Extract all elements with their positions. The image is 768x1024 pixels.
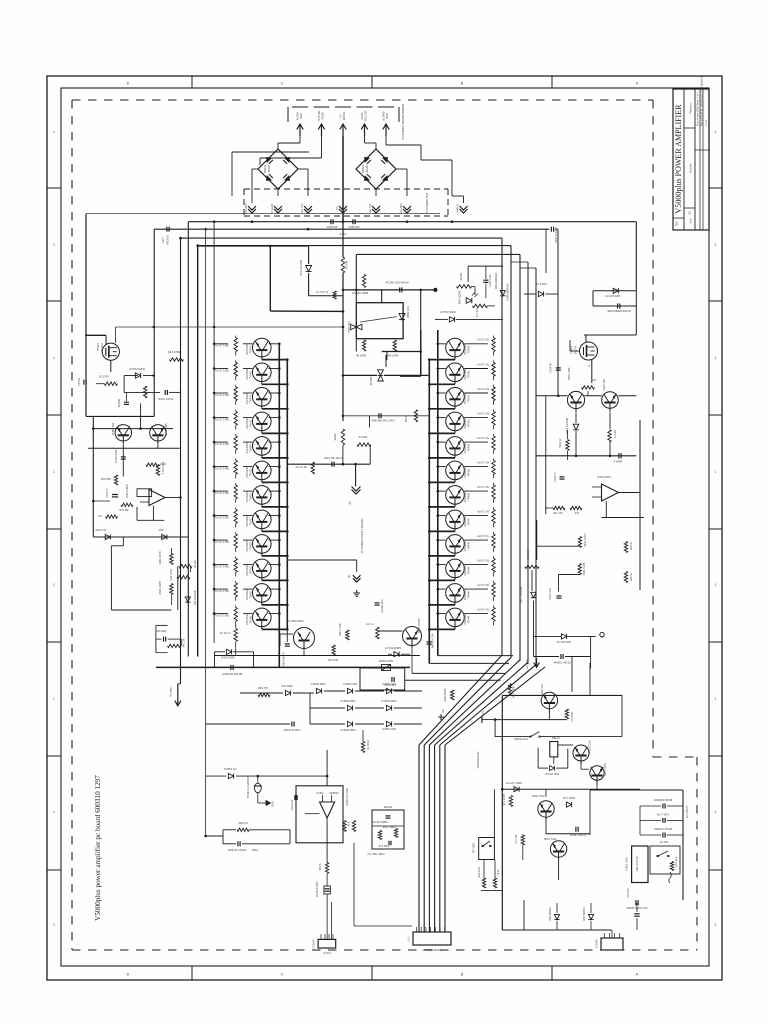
svg-text:RED: RED — [385, 113, 389, 119]
svg-text:4K 9B: 4K 9B — [459, 273, 463, 280]
svg-text:AWE 4L2 W1P2: AWE 4L2 W1P2 — [228, 848, 247, 852]
svg-text:MR1 TIP: MR1 TIP — [258, 686, 268, 690]
svg-text:AU2 0.5W: AU2 0.5W — [169, 569, 173, 581]
svg-text:AN1 DIR2: AN1 DIR2 — [281, 684, 293, 688]
svg-text:HY1N2 W9P2: HY1N2 W9P2 — [385, 646, 402, 650]
svg-text:C422 47D: C422 47D — [548, 588, 552, 600]
svg-text:TO POWER SUPPLY BOARD: TO POWER SUPPLY BOARD — [360, 519, 364, 554]
svg-text:W140 DIRE: W140 DIRE — [221, 656, 235, 660]
svg-text:D65 B/W94: D65 B/W94 — [548, 907, 552, 921]
svg-text:R 1.12V: R 1.12V — [475, 308, 479, 318]
svg-text:2SC5200: 2SC5200 — [245, 344, 249, 355]
svg-text:TR412: TR412 — [249, 394, 253, 402]
svg-text:TR430: TR430 — [467, 345, 471, 353]
svg-text:4C1 L1P8: 4C1 L1P8 — [502, 794, 506, 806]
svg-text:C417: C417 — [161, 236, 165, 243]
svg-text:IC40 LM311: IC40 LM311 — [597, 475, 611, 479]
svg-text:AU 07 0.5W: AU 07 0.5W — [215, 442, 230, 446]
svg-text:BC4L3 2.2U/16KV: BC4L3 2.2U/16KV — [246, 776, 250, 797]
svg-text:D: D — [127, 973, 130, 977]
svg-text:1: 1 — [53, 923, 55, 927]
svg-text:2SC5200: 2SC5200 — [245, 442, 249, 453]
svg-text:Title: Title — [675, 221, 679, 226]
svg-text:1: 1 — [715, 130, 717, 134]
svg-text:BK UPB: BK UPB — [328, 658, 338, 662]
svg-text:AU 07 1W: AU 07 1W — [477, 509, 489, 513]
svg-text:AU 07 1W: AU 07 1W — [477, 558, 489, 562]
svg-text:7M117 PJ8: 7M117 PJ8 — [338, 623, 342, 636]
svg-text:W26LN 9PN: W26LN 9PN — [379, 659, 394, 663]
svg-text:TR414: TR414 — [570, 346, 574, 354]
svg-text:IC40 LM311: IC40 LM311 — [125, 483, 129, 497]
svg-text:9C9 45L: 9C9 45L — [119, 508, 129, 512]
svg-text:HYPN1 0IN1: HYPN1 0IN1 — [545, 772, 560, 776]
svg-text:HYBN2 DIR2: HYBN2 DIR2 — [340, 699, 356, 703]
svg-text:R47: R47 — [592, 378, 597, 382]
svg-text:A2: A2 — [688, 211, 692, 215]
svg-text:D411 1N4148: D411 1N4148 — [299, 260, 303, 276]
svg-text:4U TCC H: 4U TCC H — [316, 290, 328, 294]
svg-text:49AC 9W 49C.2: 49AC 9W 49C.2 — [324, 456, 343, 460]
svg-text:AC-70V: AC-70V — [368, 203, 372, 212]
svg-text:L.PL: L.PL — [407, 936, 411, 942]
svg-text:AU(M) 49.2: AU(M) 49.2 — [380, 599, 384, 613]
svg-text:AMP+G: AMP+G — [456, 203, 460, 212]
svg-text:C48 100/100: C48 100/100 — [282, 652, 286, 667]
svg-text:T8.44 3986: T8.44 3986 — [164, 423, 168, 437]
svg-text:R 2.2K: R 2.2K — [613, 430, 617, 438]
svg-text:TR434: TR434 — [467, 443, 471, 451]
svg-text:AC0R: AC0R — [360, 112, 364, 119]
svg-text:V5000plus POWER AMPLIFIER: V5000plus POWER AMPLIFIER — [674, 104, 683, 214]
svg-text:TR60 7912: TR60 7912 — [532, 794, 545, 798]
svg-text:TR42 2SC58: TR42 2SC58 — [417, 618, 421, 634]
svg-text:2SA1943: 2SA1943 — [463, 467, 467, 478]
svg-text:E9C4E: E9C4E — [384, 805, 392, 809]
svg-text:7s1 0W1 49P.2: 7s1 0W1 49P.2 — [367, 852, 385, 856]
svg-text:TR418: TR418 — [249, 541, 253, 549]
svg-text:Revision: Revision — [689, 102, 693, 113]
svg-text:1: 1 — [715, 697, 717, 701]
svg-text:35A05: 35A05 — [267, 165, 271, 173]
svg-text:+POWER W101A: +POWER W101A — [422, 948, 443, 952]
svg-text:D60 MUR320: D60 MUR320 — [494, 273, 498, 289]
svg-text:XS GPB: XS GPB — [570, 712, 574, 722]
svg-text:1: 1 — [53, 810, 55, 814]
svg-text:SPEAKER 2W: SPEAKER 2W — [476, 751, 480, 768]
svg-text:C422 47: C422 47 — [553, 472, 557, 482]
svg-text:36.1 DIPB: 36.1 DIPB — [512, 686, 516, 698]
svg-text:D415 N240: D415 N240 — [114, 449, 118, 463]
svg-text:TR419: TR419 — [249, 566, 253, 574]
svg-text:IC402: IC402 — [317, 791, 324, 795]
svg-text:C4.1W: C4.1W — [77, 377, 81, 385]
svg-text:AN61 10PB: AN61 10PB — [158, 581, 162, 595]
svg-text:D416 1N4148: D416 1N4148 — [565, 417, 569, 434]
svg-text:2SA1943: 2SA1943 — [463, 565, 467, 576]
svg-text:SP-: SP- — [347, 574, 351, 578]
svg-text:2SA1943: 2SA1943 — [463, 516, 467, 527]
svg-text:3K61 DIPB: 3K61 DIPB — [443, 688, 447, 701]
svg-text:2L/98.2% LOW: 2L/98.2% LOW — [345, 788, 349, 806]
svg-text:9B4k 32.6: 9B4k 32.6 — [406, 306, 410, 318]
svg-text:AU 07 0.5W: AU 07 0.5W — [215, 491, 230, 495]
svg-text:9L2V: 9L2V — [496, 869, 500, 875]
svg-text:Size: Size — [689, 218, 693, 224]
svg-text:4N.34D.1EE WW.HI: 4N.34D.1EE WW.HI — [385, 281, 408, 285]
svg-text:MY 9560: MY 9560 — [472, 842, 476, 853]
svg-text:9K11: 9K11 — [404, 416, 408, 422]
svg-text:LICENCE DIR.2B: LICENCE DIR.2B — [222, 672, 243, 676]
svg-text:AU 07 1W: AU 07 1W — [477, 485, 489, 489]
svg-text:TR411: TR411 — [249, 370, 253, 378]
svg-text:41K: 41K — [347, 821, 351, 826]
svg-text:AU 07 1W: AU 07 1W — [477, 387, 489, 391]
svg-text:W410K: W410K — [117, 398, 121, 407]
svg-text:Number: Number — [689, 163, 693, 173]
svg-text:TR437: TR437 — [467, 517, 471, 525]
svg-text:1: 1 — [715, 243, 717, 247]
svg-text:2SA1943: 2SA1943 — [463, 442, 467, 453]
svg-text:4M 10PB: 4M 10PB — [388, 354, 399, 358]
svg-text:C: C — [281, 973, 284, 977]
svg-text:AU 07 1W: AU 07 1W — [477, 411, 489, 415]
svg-text:2SC5200: 2SC5200 — [245, 515, 249, 526]
svg-text:NE5532: NE5532 — [329, 791, 339, 795]
svg-text:9K11 10: 9K11 10 — [558, 438, 562, 448]
svg-text:AU 07 0.5W: AU 07 0.5W — [215, 344, 230, 348]
svg-text:47K: 47K — [575, 511, 580, 515]
svg-text:Date 4-Jan-1998 Sheet 1 of 1: Date 4-Jan-1998 Sheet 1 of 1 — [696, 91, 700, 126]
svg-text:3K9 10: 3K9 10 — [629, 572, 633, 581]
svg-text:CON60: CON60 — [595, 939, 599, 948]
svg-text:2SC5200: 2SC5200 — [245, 589, 249, 600]
svg-text:HYBN2 DIR: HYBN2 DIR — [382, 727, 396, 731]
svg-text:4L 1PF2: 4L 1PF2 — [366, 740, 370, 750]
svg-text:2SA1943: 2SA1943 — [463, 368, 467, 379]
svg-text:1: 1 — [715, 470, 717, 474]
svg-text:BC4K 47/16V: BC4K 47/16V — [315, 881, 319, 897]
svg-text:2SC5200: 2SC5200 — [245, 613, 249, 624]
svg-text:C64 HB1: C64 HB1 — [156, 629, 167, 633]
svg-text:TURN2 DIR: TURN2 DIR — [343, 682, 357, 686]
svg-text:AU 07 1W: AU 07 1W — [477, 436, 489, 440]
svg-text:1K16: 1K16 — [160, 462, 167, 466]
svg-text:AU 9B1 10PB: AU 9B1 10PB — [352, 291, 368, 295]
svg-text:TURN1 1N: TURN1 1N — [224, 767, 237, 771]
svg-text:AN 7 49T2: AN 7 49T2 — [657, 813, 670, 817]
svg-text:AU 07 1W: AU 07 1W — [477, 583, 489, 587]
svg-text:TURN2 DIR2: TURN2 DIR2 — [310, 682, 326, 686]
svg-text:59K2: 59K2 — [252, 848, 259, 852]
svg-text:C424 49: C424 49 — [549, 363, 553, 373]
svg-text:GD: GD — [441, 709, 445, 713]
svg-text:TR438: TR438 — [467, 541, 471, 549]
svg-text:TR413: TR413 — [249, 419, 253, 427]
svg-text:4B DIPB: 4B DIPB — [356, 354, 366, 358]
svg-text:1 2 3: 1 2 3 — [704, 120, 708, 126]
svg-text:C60 1mF: C60 1mF — [290, 799, 294, 810]
svg-text:9C10 100UF: 9C10 100UF — [159, 397, 174, 401]
svg-text:ZD 9B1: ZD 9B1 — [369, 376, 373, 385]
svg-text:TR421: TR421 — [249, 615, 253, 623]
svg-text:3K61 10PB: 3K61 10PB — [158, 551, 162, 564]
svg-text:TR61 7914: TR61 7914 — [603, 763, 607, 776]
svg-text:AU 07 1W: AU 07 1W — [477, 338, 489, 342]
svg-text:TR436: TR436 — [467, 492, 471, 500]
svg-text:AU 6.8/W: AU 6.8/W — [535, 282, 547, 286]
svg-text:TR60 700: TR60 700 — [540, 684, 544, 696]
svg-text:RED LED6C: RED LED6C — [458, 290, 462, 305]
svg-text:CON40: CON40 — [312, 939, 316, 948]
svg-text:YELLOW: YELLOW — [364, 110, 368, 121]
svg-text:TR42 7966: TR42 7966 — [567, 367, 571, 380]
svg-text:SP: SP — [348, 501, 352, 505]
svg-text:W9T01 9LN: W9T01 9LN — [514, 737, 528, 741]
svg-text:NTC 4L2: NTC 4L2 — [674, 856, 678, 867]
svg-text:AC+80V: AC+80V — [244, 203, 248, 213]
svg-text:D: D — [127, 82, 130, 86]
svg-text:TR401: TR401 — [96, 343, 100, 351]
svg-text:1: 1 — [53, 243, 55, 247]
svg-text:TR414: TR414 — [249, 443, 253, 451]
svg-text:TR417: TR417 — [249, 517, 253, 525]
svg-text:A565 W6: A565 W6 — [349, 225, 360, 229]
svg-text:WHITE: WHITE — [342, 112, 346, 121]
svg-text:AU A25 22PF: AU A25 22PF — [605, 294, 621, 298]
svg-text:TR43 296: TR43 296 — [602, 379, 606, 391]
svg-text:AC176V: AC176V — [626, 888, 630, 898]
svg-text:AU 2.8/W: AU 2.8/W — [526, 549, 530, 561]
svg-text:HYBN2 DIR2: HYBN2 DIR2 — [381, 699, 397, 703]
svg-text:5K61 11PB: 5K61 11PB — [582, 562, 586, 575]
svg-text:AC SW: AC SW — [660, 840, 669, 844]
svg-text:AU 07 0.5W: AU 07 0.5W — [215, 564, 230, 568]
svg-text:RACING: RACING — [166, 235, 170, 245]
svg-text:BR402: BR402 — [361, 164, 365, 172]
svg-text:1: 1 — [53, 470, 55, 474]
svg-text:1: 1 — [53, 356, 55, 360]
svg-text:2SC5200: 2SC5200 — [245, 540, 249, 551]
svg-text:AU 07 0.5W: AU 07 0.5W — [215, 466, 230, 470]
svg-text:D417 1N4148: D417 1N4148 — [519, 586, 523, 603]
svg-text:45L 47K: 45L 47K — [553, 511, 563, 515]
svg-text:TR439: TR439 — [467, 566, 471, 574]
svg-text:767: 767 — [98, 514, 103, 518]
svg-text:50W LN: 50W LN — [238, 821, 247, 825]
svg-text:AU 07 0.5W: AU 07 0.5W — [215, 613, 230, 617]
svg-text:1: 1 — [715, 810, 717, 814]
svg-text:AU ACY 49P2: AU ACY 49P2 — [506, 781, 523, 785]
svg-text:D65 B/W94: D65 B/W94 — [582, 907, 586, 921]
svg-text:AU 07 1W: AU 07 1W — [477, 534, 489, 538]
svg-text:R 1.2W: R 1.2W — [514, 834, 518, 843]
svg-text:TR420: TR420 — [249, 590, 253, 598]
svg-text:AU 07 1W: AU 07 1W — [477, 607, 489, 611]
svg-text:1: 1 — [53, 130, 55, 134]
svg-text:2SC5200: 2SC5200 — [245, 564, 249, 575]
svg-text:D44 2N4448: D44 2N4448 — [193, 590, 197, 605]
svg-text:K29 1/2V: K29 1/2V — [477, 866, 481, 877]
svg-text:ACY 49P2: ACY 49P2 — [563, 796, 576, 800]
svg-text:TO POWER TRANSFORMER: TO POWER TRANSFORMER — [401, 104, 405, 140]
svg-text:V88 GND V8: V88 GND V8 — [635, 856, 639, 872]
svg-text:TR416: TR416 — [249, 492, 253, 500]
svg-text:2SC5200: 2SC5200 — [245, 417, 249, 428]
svg-text:AC0WD: AC0WD — [382, 111, 386, 120]
svg-text:RED: RED — [299, 113, 303, 119]
svg-text:TR410: TR410 — [249, 345, 253, 353]
svg-text:49C 2K: 49C 2K — [182, 638, 186, 647]
svg-text:NOTTER: NOTTER — [317, 111, 321, 122]
svg-text:2SA1943: 2SA1943 — [463, 418, 467, 429]
svg-text:AC-70V: AC-70V — [300, 203, 304, 212]
svg-text:2A P/W: 2A P/W — [345, 260, 349, 269]
svg-text:W440: W440 — [333, 433, 337, 440]
svg-text:AU 07 1W: AU 07 1W — [477, 460, 489, 464]
svg-text:R 0.5W: R 0.5W — [359, 435, 368, 439]
svg-text:2SC5200: 2SC5200 — [245, 466, 249, 477]
svg-text:AU 1 1: AU 1 1 — [366, 622, 374, 626]
svg-text:G: G — [587, 365, 591, 367]
svg-text:HY2N2 20N2: HY2N2 20N2 — [288, 619, 304, 623]
svg-text:TR432: TR432 — [467, 394, 471, 402]
svg-text:TR431: TR431 — [467, 370, 471, 378]
svg-text:1: 1 — [715, 583, 717, 587]
svg-text:2SA1943: 2SA1943 — [463, 614, 467, 625]
svg-text:TR415: TR415 — [249, 468, 253, 476]
svg-text:SECONDER 99CLR: SECONDER 99CLR — [607, 309, 631, 313]
svg-text:AU C1 45: AU C1 45 — [295, 465, 307, 469]
svg-text:9C1 PPI: 9C1 PPI — [99, 375, 109, 379]
svg-text:A459K2 49C10: A459K2 49C10 — [553, 661, 571, 665]
svg-text:1: 1 — [715, 356, 717, 360]
svg-text:2PF: 2PF — [159, 528, 164, 532]
svg-text:5K11 10PH: 5K11 10PH — [583, 533, 587, 546]
svg-text:F 680N: F 680N — [614, 460, 623, 464]
svg-text:2SC5200: 2SC5200 — [245, 393, 249, 404]
svg-text:BR401: BR401 — [263, 164, 267, 172]
svg-text:VBE MW 49C1 9P.2: VBE MW 49C1 9P.2 — [371, 419, 395, 423]
svg-text:AU 07 0.5W: AU 07 0.5W — [215, 393, 230, 397]
svg-text:C412 47: C412 47 — [105, 488, 109, 498]
svg-text:1: 1 — [53, 583, 55, 587]
svg-text:YELW: YELW — [321, 112, 325, 120]
svg-text:V5000plus power amplifier pc b: V5000plus power amplifier pc board 60031… — [94, 775, 102, 921]
svg-text:35A05: 35A05 — [365, 165, 369, 173]
svg-text:R GAIN: R GAIN — [270, 203, 274, 212]
svg-text:4B 2N: 4B 2N — [318, 863, 322, 870]
svg-text:A565 W6: A565 W6 — [327, 225, 338, 229]
svg-text:2SC5200: 2SC5200 — [245, 491, 249, 502]
svg-text:C414 2.2M: C414 2.2M — [488, 275, 492, 288]
svg-text:TR433: TR433 — [467, 419, 471, 427]
svg-text:4N.49 10PB2: 4N.49 10PB2 — [372, 820, 388, 824]
svg-text:HYPN2 60N2: HYPN2 60N2 — [440, 310, 456, 314]
svg-text:File D:PROTEL V5000PLUS.SCH Dr: File D:PROTEL V5000PLUS.SCH Drawn By — [700, 74, 704, 126]
svg-text:2SA1943: 2SA1943 — [463, 491, 467, 502]
svg-text:T2869 394: T2869 394 — [111, 422, 115, 435]
svg-text:0V: 0V — [335, 206, 339, 209]
svg-text:1: 1 — [715, 923, 717, 927]
svg-text:2SA1943: 2SA1943 — [463, 344, 467, 355]
svg-text:2SA1943: 2SA1943 — [463, 393, 467, 404]
svg-text:AU 07 0.5W: AU 07 0.5W — [215, 515, 230, 519]
svg-text:TR440: TR440 — [467, 590, 471, 598]
svg-text:9K2 9PF: 9K2 9PF — [101, 477, 112, 481]
svg-text:3K9 10: 3K9 10 — [629, 541, 633, 550]
svg-text:AC INPUT: AC INPUT — [685, 806, 689, 819]
svg-text:L2 PL2: L2 PL2 — [323, 951, 332, 955]
svg-text:2K 2W: 2K 2W — [193, 560, 197, 568]
svg-text:9L3 0W2: 9L3 0W2 — [379, 844, 390, 848]
svg-text:BU27A: BU27A — [100, 343, 104, 351]
svg-text:1: 1 — [53, 697, 55, 701]
svg-text:AU 07 0.5W: AU 07 0.5W — [215, 540, 230, 544]
svg-text:AC30V: AC30V — [296, 112, 300, 120]
svg-text:2SA1943: 2SA1943 — [463, 540, 467, 551]
svg-text:A60A900 0PGB: A60A900 0PGB — [654, 798, 673, 802]
svg-text:TR40 324: TR40 324 — [347, 321, 351, 333]
svg-text:TR435: TR435 — [467, 468, 471, 476]
svg-text:GND: GND — [271, 801, 275, 807]
svg-text:C: C — [281, 82, 284, 86]
svg-text:TR441: TR441 — [467, 615, 471, 623]
svg-text:AU A25 D9F: AU A25 D9F — [557, 640, 572, 644]
svg-text:TURN2 DIR: TURN2 DIR — [382, 682, 396, 686]
svg-text:TR60 2SC22: TR60 2SC22 — [588, 740, 592, 756]
svg-text:B4P50V 1W: B4P50V 1W — [431, 633, 435, 648]
svg-text:0V: 0V — [339, 114, 343, 117]
svg-text:AU 07 0.5W: AU 07 0.5W — [215, 417, 230, 421]
svg-text:2in input: 2in input — [169, 687, 173, 697]
svg-text:R4 6.8 5W: R4 6.8 5W — [168, 350, 181, 354]
svg-text:AC+80V: AC+80V — [399, 203, 403, 213]
svg-text:HYBN2 DIR2: HYBN2 DIR2 — [340, 728, 356, 732]
svg-text:GN: GN — [481, 711, 485, 715]
svg-text:AU 07 0.5W: AU 07 0.5W — [215, 368, 230, 372]
svg-text:2SA1943: 2SA1943 — [463, 589, 467, 600]
svg-text:AN151W INP2: AN151W INP2 — [284, 728, 301, 732]
svg-text:2SC5200: 2SC5200 — [245, 368, 249, 379]
svg-text:AU 07 0.5W: AU 07 0.5W — [215, 589, 230, 593]
svg-text:HYPN2 H9N2: HYPN2 H9N2 — [129, 367, 146, 371]
svg-text:D406 MUR320: D406 MUR320 — [506, 283, 510, 301]
svg-text:IC601 7812: IC601 7812 — [625, 857, 629, 871]
svg-text:TO POWER PCB: TO POWER PCB — [425, 193, 429, 213]
svg-text:TR41 7914: TR41 7914 — [544, 837, 557, 841]
svg-text:AW26JF 4T938: AW26JF 4T938 — [654, 827, 672, 831]
svg-text:AU 22 L5: AU 22 L5 — [220, 631, 231, 635]
svg-text:AU 07 1W: AU 07 1W — [477, 362, 489, 366]
svg-text:Z441 14V: Z441 14V — [95, 528, 107, 532]
svg-text:BU27B: BU27B — [574, 346, 578, 354]
